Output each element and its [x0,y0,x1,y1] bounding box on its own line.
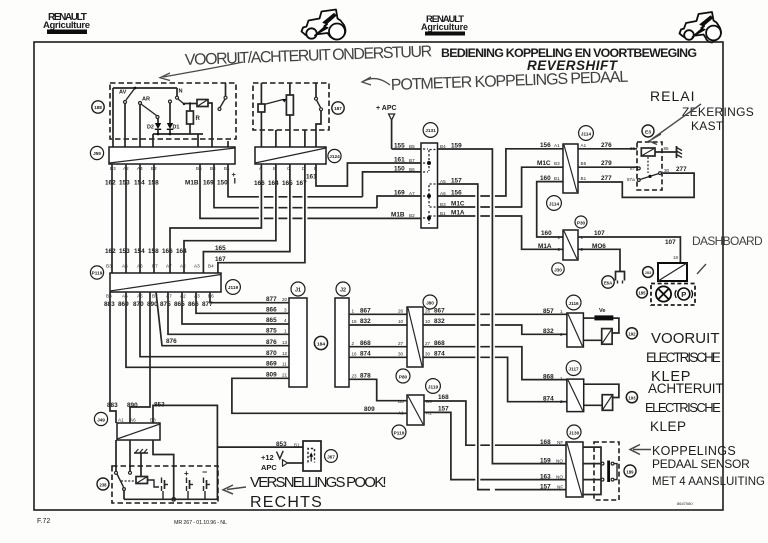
rail junction [172,498,176,502]
border frame [34,42,723,510]
diode D1 [167,100,180,134]
connector ref circle P119 lower [392,425,406,439]
svg-text:2: 2 [560,399,563,404]
connector J116 [567,313,584,347]
J59 pin labels [110,166,230,171]
connector ref circle J131 [423,123,438,138]
junction on rail [134,87,137,90]
svg-text:B5: B5 [581,161,587,166]
J1 pin numbers [282,297,288,378]
diode D2 [147,119,161,135]
svg-text:A7: A7 [166,264,172,269]
svg-text:27: 27 [398,341,404,346]
connector ref circle J119 lower [426,379,441,394]
component ref circle 187 [332,102,344,114]
wire 160 J114 to P30 [537,182,563,237]
svg-text:1: 1 [560,309,563,314]
handwritten note versnellings pook rechts [250,474,387,511]
wire 157 to J130 [424,412,566,479]
svg-text:107: 107 [665,239,676,246]
connector ref circle JX2 [643,267,654,278]
svg-text:A1: A1 [398,411,404,416]
handwritten arrow to 187 [364,79,390,85]
svg-text:Agriculture: Agriculture [43,20,90,31]
svg-text:J117: J117 [569,367,580,372]
tractor icon (top center-left) [302,10,346,40]
J116 labels [543,308,554,335]
svg-text:J1: J1 [295,288,301,294]
J114 right labels [581,143,587,181]
svg-text:B5: B5 [409,144,415,149]
handwritten arrow to 189 [630,445,651,455]
svg-text:1: 1 [560,376,563,381]
svg-text:866: 866 [188,301,199,308]
connector ref circle J49 [94,412,107,425]
svg-text:168: 168 [438,394,449,401]
svg-text:875: 875 [160,301,171,308]
svg-text:B2: B2 [409,213,415,218]
resistor R [187,104,201,135]
connector ref circle J116 [566,295,581,310]
connector ref circle J117 [566,361,581,376]
svg-text:B6: B6 [208,294,214,299]
wire 158 [153,164,155,273]
J59 wire number labels [105,180,228,187]
connector ref circle P80 [396,369,410,383]
wire M1B [200,164,421,218]
svg-text:AV: AV [119,90,127,96]
svg-text:M1C: M1C [537,160,551,167]
connector P30 [563,230,578,260]
P119 top wire labels [105,248,187,255]
svg-text:KLEP: KLEP [650,419,687,434]
wire 166 [170,164,261,273]
wire 165 [203,164,290,273]
supply +12V APC [261,451,303,472]
svg-text:VERSNELLINGS POOK!: VERSNELLINGS POOK! [250,474,387,491]
wire 159 [438,149,567,464]
svg-text:160: 160 [541,230,552,237]
wire 809 [232,378,407,413]
wire 868 J2 to J80 [349,346,407,348]
svg-text:J59: J59 [93,151,101,156]
svg-text:157: 157 [438,406,449,413]
tractor icon (top right) [680,12,721,43]
wire 169 [214,164,421,208]
svg-text:NO: NO [556,475,563,480]
wire M1C [438,167,564,207]
svg-text:870: 870 [266,350,277,357]
svg-text:865: 865 [266,317,277,324]
svg-text:B3: B3 [554,161,560,166]
svg-text:866: 866 [266,307,277,314]
svg-text:159: 159 [540,457,551,464]
svg-text:JX2: JX2 [645,271,652,275]
svg-text:86: 86 [630,146,636,151]
svg-text:M1A: M1A [538,243,552,250]
svg-text:16: 16 [352,352,358,357]
svg-text:157: 157 [540,483,551,490]
J119 lower pin labels [398,399,432,416]
wire 276 [578,148,637,150]
svg-text:F.72: F.72 [37,518,50,525]
wire 277 [578,173,694,197]
svg-text:B3: B3 [106,294,112,299]
svg-text:809: 809 [364,406,375,413]
dashboard lamps unit 185 dashed box [651,284,695,306]
wire 156 [438,149,564,196]
svg-text:874: 874 [434,351,445,358]
svg-text:189: 189 [626,470,634,475]
svg-text:VOORUIT: VOORUIT [651,330,720,347]
logo RENAULT Agriculture (left) [43,12,90,34]
svg-text:J119: J119 [428,385,439,390]
connector ref circle J119 [226,280,241,295]
wire 155 [392,148,421,150]
svg-text:+: + [232,170,237,179]
svg-text:2: 2 [558,247,561,252]
wire 153 [125,164,127,273]
handwritten note achteruit electrische klep [645,381,724,434]
svg-text:20: 20 [282,297,288,302]
svg-text:R: R [196,116,201,122]
wire 877 [210,292,289,303]
svg-text:857: 857 [543,308,554,315]
connector J49 [117,423,160,440]
J114 left labels [537,142,551,182]
svg-text:NO: NO [556,459,563,464]
svg-text:156: 156 [540,142,551,149]
logo RENAULT Agriculture (center) [421,14,468,36]
switch right in 188 [218,83,228,147]
svg-text:164: 164 [268,180,279,187]
handwritten arrow to 238 [223,485,246,494]
svg-text:A1: A1 [554,143,560,148]
svg-text:193: 193 [628,395,636,400]
svg-text:NF: NF [557,440,563,445]
bus rail inside 188 [113,88,177,147]
J124 wire number labels [254,174,317,188]
svg-text:J2: J2 [340,288,346,294]
solenoid valve (vooruit) [583,329,612,345]
common rail under diodes [153,134,203,147]
svg-text:J80: J80 [426,301,434,306]
connector ref circle J124 [328,149,341,162]
svg-text:Agriculture: Agriculture [421,22,468,32]
connector J67 [303,441,321,471]
connector ref circle J130 [567,425,581,439]
svg-text:12: 12 [282,351,288,356]
J80 right wire labels [434,308,445,358]
svg-text:187: 187 [334,106,342,111]
svg-text:ACHTERUIT: ACHTERUIT [648,381,724,396]
svg-text:DASHBOARD: DASHBOARD [692,234,763,248]
svg-text:B4: B4 [210,166,216,171]
svg-text:13: 13 [282,340,288,345]
svg-text:30: 30 [664,168,670,173]
svg-text:279: 279 [601,160,612,167]
connector ref circle E6A [602,276,614,288]
stub B (pin B of J124) [275,130,277,147]
svg-text:E6A: E6A [604,281,612,286]
wire 167 [218,164,305,273]
handwritten slash near JX2 [697,264,706,274]
svg-text:B7: B7 [409,158,415,163]
supply +APC [376,105,397,149]
svg-text:162: 162 [105,248,116,255]
svg-text:878: 878 [360,373,371,380]
svg-text:150: 150 [394,166,405,173]
connector J1 [289,298,307,387]
svg-text:162: 162 [105,180,116,187]
svg-text:A6: A6 [137,264,143,269]
svg-text:277: 277 [601,175,612,182]
svg-text:−: − [202,467,207,477]
J131 left wire labels [391,143,405,219]
svg-text:J130: J130 [569,431,580,436]
svg-text:867: 867 [434,308,445,315]
connector J59 [109,147,235,164]
wire 157 [438,184,567,490]
svg-text:238: 238 [99,483,107,488]
switch in 238 [115,471,136,499]
svg-text:A2: A2 [180,264,186,269]
component ref circle 188 [92,101,104,113]
handwritten note koppelings pedaal sensor met 4 aansluiting [652,444,765,488]
connector ref circle J30 [552,263,564,275]
component ref circle E3 [642,125,654,137]
svg-text:26: 26 [398,309,404,314]
svg-text:PEDAAL SENSOR: PEDAAL SENSOR [652,457,750,471]
svg-text:P30: P30 [577,221,586,226]
handwritten note relai zekerings kast [650,88,754,133]
connector ref circle J2 [336,282,350,296]
svg-text:30: 30 [398,352,404,357]
wire labels 165 167 (stacked) [215,245,226,263]
svg-text:J67: J67 [327,455,335,460]
pushbutton plus [184,469,193,499]
svg-text:+12: +12 [261,453,274,462]
wire 867 J80 to J116 [423,313,567,315]
svg-text:2: 2 [352,341,355,346]
svg-text:877: 877 [266,296,277,303]
P30 labels [538,230,606,250]
svg-text:165: 165 [282,180,293,187]
svg-text:23: 23 [352,374,358,379]
ground (E3) [677,146,683,158]
J119 lower right wire labels [438,394,449,413]
svg-text:A5: A5 [122,264,128,269]
svg-text:158: 158 [148,248,159,255]
battery plus mark near J59 [232,170,237,184]
svg-text:27: 27 [425,341,431,346]
wire 876 [156,292,289,346]
ground (gear lever) [134,449,148,477]
svg-text:A2: A2 [180,294,186,299]
svg-text:869: 869 [266,361,277,368]
svg-text:867: 867 [360,308,371,315]
svg-text:875: 875 [266,328,277,335]
svg-text:RELAI: RELAI [650,88,695,104]
svg-text:154: 154 [134,248,145,255]
connector E6A plug [616,266,625,284]
svg-text:30: 30 [425,352,431,357]
potentiometer unit 187 dashed box [253,83,329,130]
svg-text:J49: J49 [97,418,105,423]
svg-text:87a: 87a [627,177,635,182]
svg-text:876: 876 [266,339,277,346]
relay coil in 238 [136,477,159,488]
svg-text:868: 868 [543,373,554,380]
svg-text:A7: A7 [409,191,415,196]
wire M1A [438,216,564,249]
svg-text:+ APC: + APC [376,105,397,112]
svg-text:A3: A3 [194,294,200,299]
wire 832 J80 to J116 [423,325,567,334]
svg-text:8647060: 8647060 [677,501,693,506]
connector J114 [563,144,578,193]
svg-text:MR 267 - 01.10.96 - NL: MR 267 - 01.10.96 - NL [174,520,227,526]
wire 865 [182,292,289,324]
connector J119 (lower) [407,395,424,425]
svg-text:+: + [184,469,189,478]
svg-text:ELECTRISCHE: ELECTRISCHE [646,350,721,365]
svg-text:J119: J119 [228,285,239,290]
svg-text:832: 832 [543,328,554,335]
wire 162 [111,164,113,273]
J117 labels [543,373,554,402]
label 853 at J67 [276,441,300,448]
svg-text:15: 15 [352,319,358,324]
connector ref circle J67 [325,450,338,463]
svg-text:J30: J30 [554,268,562,273]
wire 853 [153,405,303,499]
pushbutton contact mid [162,478,169,500]
J49 bottom stubs [116,440,174,499]
svg-text:B1: B1 [581,176,587,181]
svg-text:B3: B3 [150,418,156,423]
component ref circle 238 [97,478,109,490]
svg-text:1: 1 [352,309,355,314]
J2 pin numbers [352,309,358,379]
svg-text:B5: B5 [398,399,404,404]
svg-text:B5: B5 [196,166,202,171]
svg-text:169: 169 [394,190,405,197]
J117 to valve wiring [584,384,619,397]
svg-text:832: 832 [434,318,445,325]
svg-text:868: 868 [434,340,445,347]
svg-text:883: 883 [107,402,118,409]
svg-text:167: 167 [215,256,226,263]
connector J2 [335,298,349,387]
svg-text:869: 869 [118,301,129,308]
svg-text:NF: NF [557,485,563,490]
component ref circle 189 [624,465,636,477]
svg-text:188: 188 [94,105,102,110]
connector J130 [566,442,583,497]
svg-text:155: 155 [394,143,405,150]
wire 154 [139,164,141,273]
svg-text:Ve: Ve [599,308,606,314]
wire 150 [228,164,421,197]
J131 left pin labels [409,144,415,218]
svg-text:ELECTRISCHE: ELECTRISCHE [645,400,721,415]
svg-text:853: 853 [154,402,165,409]
P119 top pin labels [106,264,214,269]
svg-text:153: 153 [119,180,130,187]
P119 bottom wire labels [104,301,213,308]
svg-text:A1: A1 [118,418,124,423]
potentiometer in 187 [264,83,293,147]
wire 161 [316,163,421,186]
svg-text:890: 890 [127,402,138,409]
svg-text:153: 153 [119,248,130,255]
svg-text:26: 26 [425,309,431,314]
svg-text:107: 107 [594,230,605,237]
svg-text:J116: J116 [569,301,580,306]
connector ref circle P119 [90,266,103,279]
svg-text:P119: P119 [394,431,405,436]
connector J124 [255,147,326,164]
stub D (pin D of J124) [304,130,306,147]
relay E3 contacts [637,157,661,181]
svg-text:185: 185 [638,291,646,296]
wire 279 [578,166,638,168]
svg-text:J131: J131 [425,128,436,133]
P119 bottom pin labels [106,294,214,299]
relay E3 dashed box [637,142,662,190]
svg-text:870: 870 [133,301,144,308]
svg-text:809: 809 [266,372,277,379]
switch AR [139,97,160,148]
wire 867 J2 to J80 [349,313,407,315]
J124 pin labels [259,166,317,171]
svg-text:D1: D1 [173,125,180,131]
connector ref circle J1 [291,282,305,296]
component ref circle 192 [626,328,637,339]
svg-text:B3: B3 [106,264,112,269]
svg-text:2: 2 [560,332,563,337]
svg-text:184: 184 [317,342,325,348]
svg-text:N: N [179,89,183,95]
wire 107 [578,237,680,263]
svg-text:166: 166 [162,248,173,255]
wire 868 J80 to J117 [423,347,567,380]
relay E3 pin labels [627,146,670,182]
svg-text:A6: A6 [122,294,128,299]
svg-text:E3: E3 [645,130,651,136]
wire 874 J80 to J117 [423,357,567,401]
svg-text:874: 874 [360,351,371,358]
svg-text:1: 1 [284,329,287,334]
gear lever switch unit 238 dashed box [112,466,218,503]
connector ref circle J114 (bottom) [547,196,562,211]
wire 832 J2 to J80 [349,324,407,326]
svg-text:868: 868 [360,340,371,347]
component ref circle 184 [314,336,327,349]
connector J131 [421,143,438,228]
svg-text:B3: B3 [110,166,116,171]
handwritten note vooruit electrische klep [646,330,721,385]
handwritten arrow to E3 [652,104,701,139]
pedal sensor 189 dashed box [594,442,619,500]
svg-text:ZEKERINGS: ZEKERINGS [682,105,754,119]
svg-text:AR: AR [142,97,150,103]
svg-text:RECHTS: RECHTS [250,494,323,511]
wire 164 [184,164,276,273]
switch AV [119,88,135,147]
component ref circle 185 [637,287,648,298]
